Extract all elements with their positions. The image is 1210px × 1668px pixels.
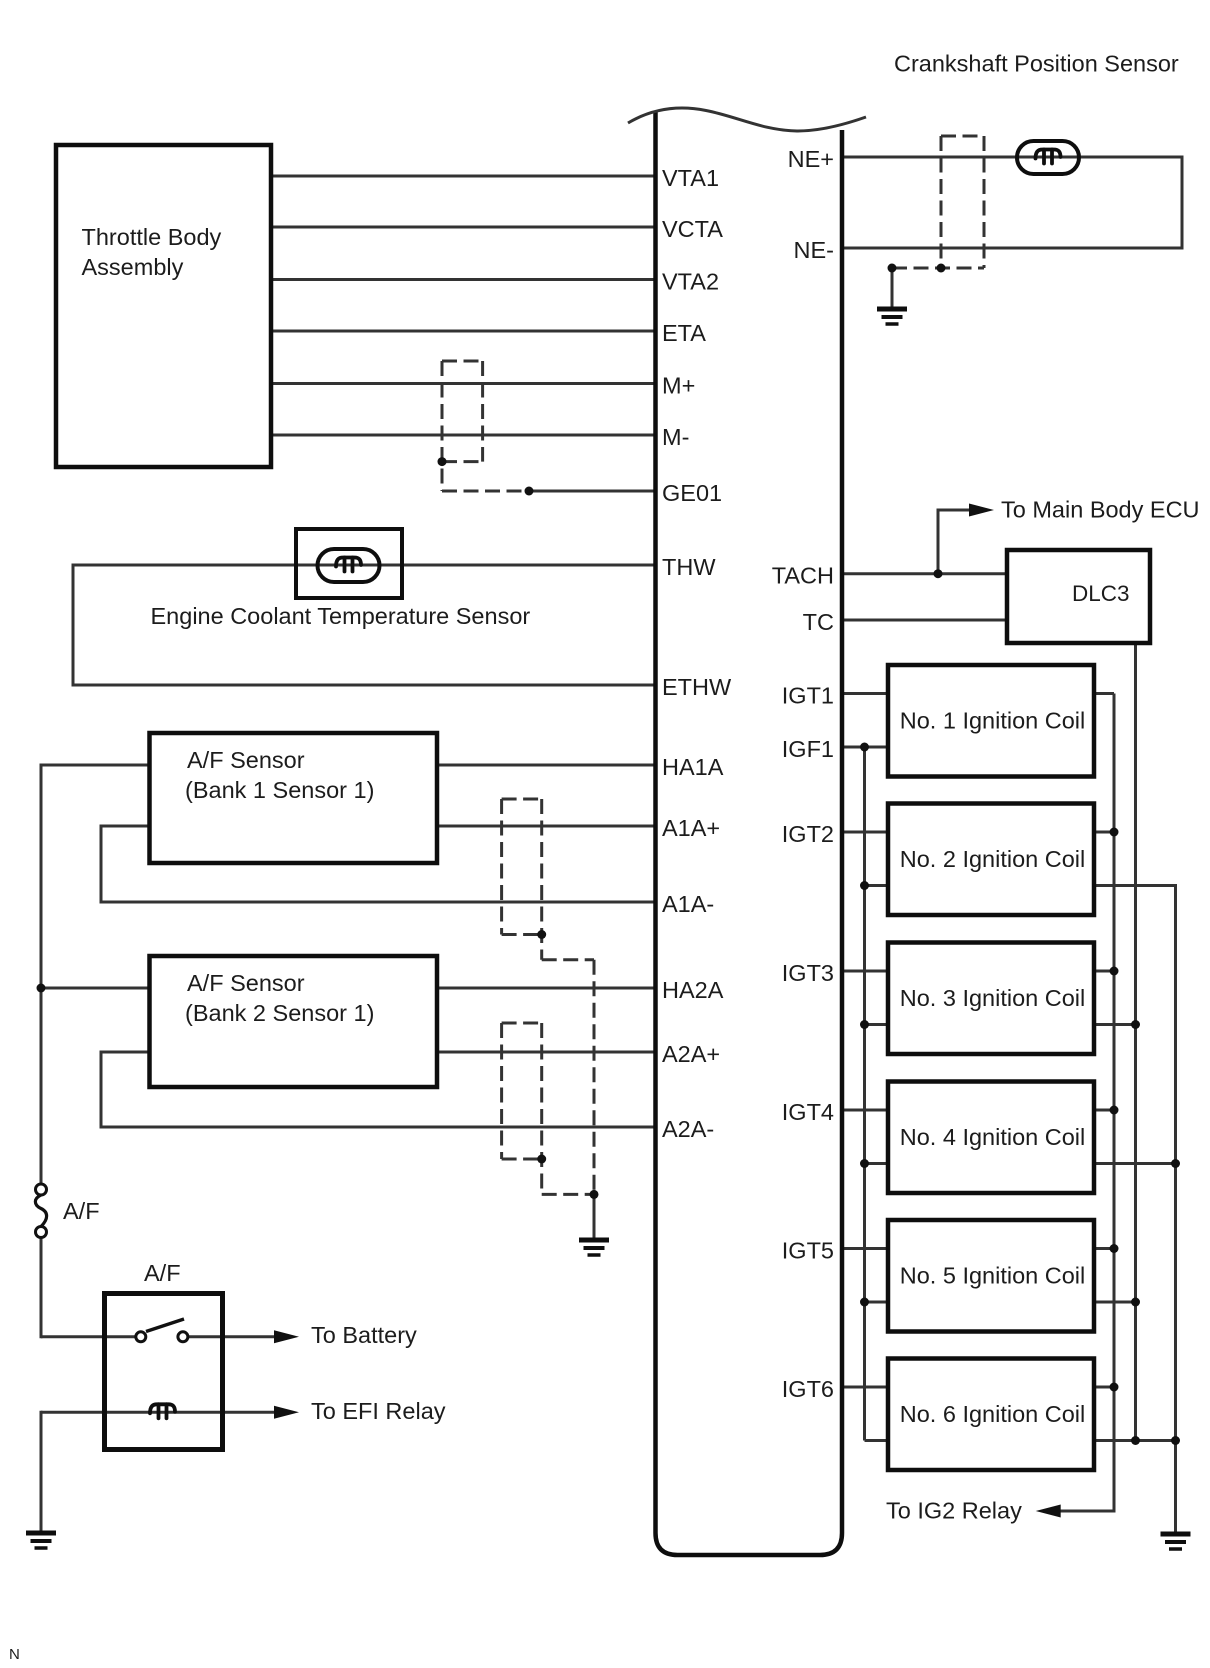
svg-text:To EFI Relay: To EFI Relay bbox=[311, 1398, 446, 1424]
svg-text:Throttle Body: Throttle Body bbox=[82, 224, 222, 250]
svg-text:No. 2 Ignition Coil: No. 2 Ignition Coil bbox=[900, 846, 1086, 872]
svg-text:ETHW: ETHW bbox=[662, 674, 732, 700]
svg-text:A/F: A/F bbox=[144, 1260, 181, 1286]
svg-text:ETA: ETA bbox=[662, 320, 706, 346]
svg-text:(Bank 2 Sensor 1): (Bank 2 Sensor 1) bbox=[185, 1000, 374, 1026]
svg-text:A1A+: A1A+ bbox=[662, 815, 720, 841]
svg-text:VCTA: VCTA bbox=[662, 216, 723, 242]
svg-text:DLC3: DLC3 bbox=[1072, 581, 1130, 606]
svg-text:GE01: GE01 bbox=[662, 480, 722, 506]
svg-text:A1A-: A1A- bbox=[662, 891, 714, 917]
svg-text:N: N bbox=[9, 1646, 20, 1663]
svg-text:IGF1: IGF1 bbox=[782, 736, 834, 762]
svg-text:No. 4 Ignition Coil: No. 4 Ignition Coil bbox=[900, 1124, 1086, 1150]
svg-text:HA1A: HA1A bbox=[662, 754, 724, 780]
svg-text:HA2A: HA2A bbox=[662, 977, 724, 1003]
svg-text:No. 3 Ignition Coil: No. 3 Ignition Coil bbox=[900, 985, 1086, 1011]
svg-text:No. 5 Ignition Coil: No. 5 Ignition Coil bbox=[900, 1263, 1086, 1289]
svg-text:IGT2: IGT2 bbox=[782, 821, 834, 847]
svg-text:IGT3: IGT3 bbox=[782, 960, 834, 986]
svg-text:No. 1 Ignition Coil: No. 1 Ignition Coil bbox=[900, 708, 1086, 734]
svg-text:A/F Sensor: A/F Sensor bbox=[187, 970, 305, 996]
svg-text:Crankshaft Position Sensor: Crankshaft Position Sensor bbox=[894, 51, 1179, 77]
svg-text:M-: M- bbox=[662, 424, 689, 450]
svg-text:VTA1: VTA1 bbox=[662, 165, 719, 191]
svg-text:To Main Body ECU: To Main Body ECU bbox=[1001, 497, 1200, 523]
svg-text:IGT4: IGT4 bbox=[782, 1099, 834, 1125]
svg-text:THW: THW bbox=[662, 554, 716, 580]
svg-text:IGT5: IGT5 bbox=[782, 1238, 834, 1264]
svg-text:IGT6: IGT6 bbox=[782, 1376, 834, 1402]
svg-text:VTA2: VTA2 bbox=[662, 269, 719, 295]
svg-text:To Battery: To Battery bbox=[311, 1322, 417, 1348]
svg-text:To IG2 Relay: To IG2 Relay bbox=[886, 1498, 1022, 1524]
svg-text:A2A-: A2A- bbox=[662, 1116, 714, 1142]
svg-text:NE-: NE- bbox=[794, 237, 834, 263]
svg-text:A/F Sensor: A/F Sensor bbox=[187, 747, 305, 773]
svg-text:(Bank 1 Sensor 1): (Bank 1 Sensor 1) bbox=[185, 777, 374, 803]
svg-text:TC: TC bbox=[803, 609, 834, 635]
svg-text:IGT1: IGT1 bbox=[782, 683, 834, 709]
svg-text:Assembly: Assembly bbox=[82, 254, 184, 280]
svg-text:A2A+: A2A+ bbox=[662, 1041, 720, 1067]
svg-text:Engine Coolant Temperature Sen: Engine Coolant Temperature Sensor bbox=[151, 603, 531, 629]
svg-text:NE+: NE+ bbox=[788, 146, 834, 172]
svg-text:TACH: TACH bbox=[772, 563, 834, 589]
svg-text:No. 6 Ignition Coil: No. 6 Ignition Coil bbox=[900, 1401, 1086, 1427]
svg-text:M+: M+ bbox=[662, 373, 695, 399]
svg-text:A/F: A/F bbox=[63, 1198, 100, 1224]
